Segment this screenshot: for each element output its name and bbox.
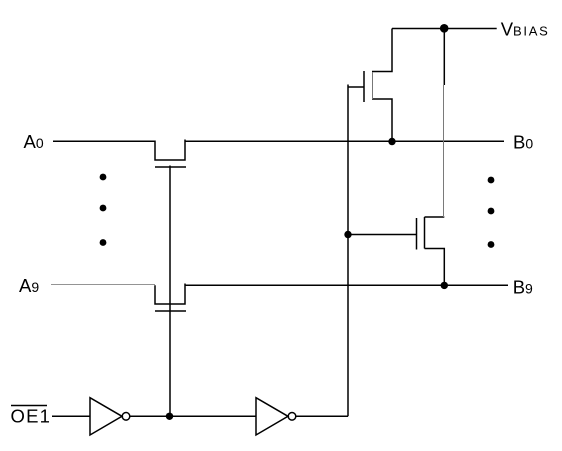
svg-text:VBIAS: VBIAS [501, 18, 550, 39]
svg-text:OE1: OE1 [11, 406, 52, 427]
svg-text:B9: B9 [513, 276, 533, 297]
svg-text:B0: B0 [513, 132, 533, 153]
svg-text:A9: A9 [19, 275, 39, 296]
svg-text:A0: A0 [24, 131, 44, 152]
